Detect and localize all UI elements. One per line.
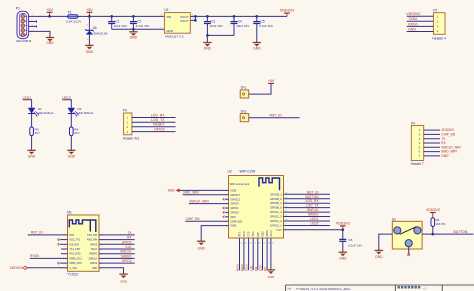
svg-text:C2: C2 xyxy=(137,19,141,23)
svg-text:BUTTON: BUTTON xyxy=(454,230,468,234)
svg-text:No:: No: xyxy=(288,287,292,291)
wire 3.3V rail xyxy=(195,15,287,17)
svg-text:SWCLK_WIFI: SWCLK_WIFI xyxy=(189,199,209,203)
svg-text:10uF 16V: 10uF 16V xyxy=(236,24,249,28)
svg-text:SWCLK: SWCLK xyxy=(89,257,98,260)
svg-text:CTS: CTS xyxy=(248,231,251,236)
svg-text:Header 4x1: Header 4x1 xyxy=(123,137,140,141)
ground GND (R3) xyxy=(27,150,35,158)
wire P2 pin 2 + node TXD0 xyxy=(407,17,434,21)
svg-text:S1: S1 xyxy=(392,217,396,221)
svg-text:LED-R25mA: LED-R25mA xyxy=(38,111,54,115)
svg-text:RXD: RXD xyxy=(243,231,246,236)
svg-text:GND: GND xyxy=(268,275,276,279)
svg-text:WIFI-COM: WIFI-COM xyxy=(240,169,256,173)
wire U2 pin5 stub (nc) xyxy=(223,207,229,209)
svg-text:10uF 16V: 10uF 16V xyxy=(210,24,223,28)
wire P3 pin 1 + node LOG_RX xyxy=(132,113,176,117)
wire M1 pin3 stub (nc) xyxy=(58,243,68,245)
svg-text:MISO: MISO xyxy=(240,264,244,271)
led D2 LED-R 25mA xyxy=(68,107,93,127)
wire M1 right pin + node TX xyxy=(99,231,135,235)
svg-text:IO9: IO9 xyxy=(254,266,258,271)
wire P2 pin 1 + node VDD3V3 xyxy=(406,12,433,16)
svg-text:C4: C4 xyxy=(238,19,242,23)
wire U2 bottom pin + node SCLK xyxy=(245,238,253,271)
svg-text:Header 4: Header 4 xyxy=(432,37,446,41)
wire P4 pin 1 + node VDD3V3 xyxy=(424,128,454,132)
capacitor C1 10uF 16V xyxy=(108,15,127,29)
svg-text:CLK: CLK xyxy=(125,245,132,249)
wire U2 pin4 + node SWCLK_WIFI xyxy=(189,199,229,203)
svg-text:+5V: +5V xyxy=(268,79,275,83)
wire M1 pin8 + power VDD3V3 port xyxy=(10,266,68,270)
svg-text:+5V: +5V xyxy=(46,8,53,12)
svg-text:TXD_PIN: TXD_PIN xyxy=(87,234,97,237)
svg-text:RX1_RXD: RX1_RXD xyxy=(69,253,80,256)
svg-text:C5: C5 xyxy=(261,19,265,23)
wire P3 pin 2 + node LOG_TX xyxy=(132,118,176,122)
resistor R1 10K xyxy=(431,213,446,235)
svg-text:GPIOC_1: GPIOC_1 xyxy=(270,223,282,227)
svg-text:SWCLK: SWCLK xyxy=(307,208,319,212)
svg-text:SWDIO: SWDIO xyxy=(89,253,97,256)
regulator U1 AMS1117-3.3 xyxy=(161,8,194,38)
svg-text:MOSI: MOSI xyxy=(266,230,269,237)
svg-text:GPIOB_0: GPIOB_0 xyxy=(270,206,282,210)
svg-text:GPIOB_1: GPIOB_1 xyxy=(270,201,282,205)
U2 bottom pin names xyxy=(239,230,273,237)
wire U2 pin7 stub (nc) xyxy=(223,216,229,218)
svg-text:GND: GND xyxy=(86,50,94,54)
svg-text:VIN: VIN xyxy=(166,15,171,19)
wire M1 right pin + node GPIO2 xyxy=(99,259,135,263)
svg-text:SWD_WIFI: SWD_WIFI xyxy=(183,191,199,195)
wire U2 right pin + node LED2 xyxy=(284,221,331,225)
wire U2 right pin + node BUTTON xyxy=(284,195,331,199)
wire USB GND to ground xyxy=(29,30,50,38)
connector P1 MiniUSB-B xyxy=(16,7,32,43)
node LED2 net label xyxy=(62,96,71,108)
power VDD3V3 (R1) xyxy=(426,208,440,212)
svg-text:LOG_TX: LOG_TX xyxy=(151,118,165,122)
svg-text:LED1: LED1 xyxy=(311,217,319,221)
wire U2 bottom pin + node EN xyxy=(263,238,271,271)
wire P4 pin 2 + node CHIP_EN xyxy=(424,133,456,137)
wire U2 pin8 + node CHIP_EN xyxy=(185,217,228,221)
wire P4 pin 3 + node TX xyxy=(424,137,447,141)
svg-text:RXD0: RXD0 xyxy=(30,254,39,258)
svg-text:PWM_IO13: PWM_IO13 xyxy=(69,257,82,260)
svg-text:GND: GND xyxy=(120,280,128,284)
svg-text:4K7: 4K7 xyxy=(74,131,80,135)
svg-text:RXD_PIN: RXD_PIN xyxy=(87,239,98,242)
svg-text:4K7: 4K7 xyxy=(35,131,41,135)
svg-text:SWCLK: SWCLK xyxy=(120,250,132,254)
ground GND (C3/C4) xyxy=(203,35,211,50)
wire M1 right pin + node SWDIO xyxy=(99,254,135,258)
svg-text:D6: D6 xyxy=(93,26,97,30)
svg-text:F1: F1 xyxy=(68,10,72,14)
wire D6 node to U1 VIN xyxy=(89,15,164,17)
wire U2 right pin + node LED1 xyxy=(284,217,331,221)
svg-text:RST_IO: RST_IO xyxy=(31,231,44,235)
svg-text:GND: GND xyxy=(253,47,261,51)
svg-text:SCLK: SCLK xyxy=(91,248,98,251)
resistor R4 4K7 xyxy=(70,127,80,150)
wire U2 right pin + node SWDIO xyxy=(284,213,331,217)
power +5V (fuse output) xyxy=(86,8,93,18)
svg-text:U2: U2 xyxy=(228,169,232,173)
svg-text:GPIO2: GPIO2 xyxy=(122,259,132,263)
svg-text:P1: P1 xyxy=(16,7,20,11)
connector P3 Header 4x1 xyxy=(123,109,140,141)
wire C1/C2/U1 ground bus xyxy=(112,27,165,30)
svg-text:RST_IO: RST_IO xyxy=(307,190,319,194)
module M1 TYZS3 xyxy=(67,210,99,271)
svg-text:GPIOC_4: GPIOC_4 xyxy=(270,210,282,214)
svg-text:CHIP_EN: CHIP_EN xyxy=(186,217,201,221)
power VDD3V3 (rail end) xyxy=(280,9,294,17)
svg-text:IO9: IO9 xyxy=(257,232,260,237)
svg-text:+5V: +5V xyxy=(86,8,93,12)
wire U1 VOUT join xyxy=(190,15,196,22)
wire TP2 + node RST_IO xyxy=(249,114,300,118)
wire M1 pin4 stub xyxy=(61,248,68,250)
power +5V (TP1) xyxy=(268,79,275,83)
svg-text:LOG_RX: LOG_RX xyxy=(306,199,320,203)
svg-text:P3: P3 xyxy=(123,109,127,113)
svg-text:GPIO0: GPIO0 xyxy=(122,240,132,244)
svg-text:LED-R25mA: LED-R25mA xyxy=(78,111,94,115)
svg-text:SWDIO: SWDIO xyxy=(308,213,319,217)
wire U2 bottom pin + node IO9 xyxy=(254,238,262,271)
svg-text:GPIO0: GPIO0 xyxy=(230,211,239,215)
svg-text:LOG_TX: LOG_TX xyxy=(306,204,319,208)
resistor R3 4K7 xyxy=(30,127,40,150)
svg-text:M1: M1 xyxy=(67,210,72,214)
svg-text:P4: P4 xyxy=(411,121,415,125)
wire U2 right pin + node LOG_RX xyxy=(284,199,331,203)
svg-text:GPIOC_2: GPIOC_2 xyxy=(270,219,282,223)
svg-text:GPIOB_3: GPIOB_3 xyxy=(270,192,282,196)
wire USB D- stub xyxy=(29,20,37,23)
wire M1 right pin + node RX xyxy=(99,236,135,240)
svg-text:VDD3V3: VDD3V3 xyxy=(426,208,440,212)
wire U2 pin9 GND to ground xyxy=(201,226,228,242)
fuse F1 0.5A 13.2V xyxy=(66,10,82,23)
wire U2 bottom GND pin xyxy=(271,238,275,270)
svg-text:SCLK: SCLK xyxy=(270,230,273,237)
svg-text:VDD3V3: VDD3V3 xyxy=(406,12,420,16)
wire U2 pin2 + node SWD_WIFI xyxy=(183,191,229,195)
svg-text:GPIO4: GPIO4 xyxy=(230,202,239,206)
wire U2 right pin + node SWCLK xyxy=(284,208,331,212)
M1 pin names xyxy=(65,234,104,270)
svg-text:GND: GND xyxy=(230,189,236,193)
wire S1 right + node BUTTON xyxy=(422,230,473,236)
svg-text:IO10: IO10 xyxy=(259,265,263,271)
capacitor C5 0.1uF 16V xyxy=(253,15,273,42)
svg-text:RXD0: RXD0 xyxy=(408,22,417,26)
wire U2 pin6 stub (nc) xyxy=(223,211,229,213)
svg-text:LED2: LED2 xyxy=(311,221,319,225)
wire U2 3.3V pin to VDD3V3 xyxy=(284,226,345,231)
svg-text:IO0_RX1: IO0_RX1 xyxy=(69,243,80,246)
switch S1 xyxy=(392,217,422,249)
diode D6 SMAJ5.0A TVS xyxy=(85,16,107,45)
wire P2 pin 3 + node RXD0 xyxy=(407,22,434,26)
wire M1 pin6 + node RXD0 xyxy=(30,254,68,258)
svg-text:C3: C3 xyxy=(211,19,215,23)
ground GND (U2 left) xyxy=(197,241,205,250)
wire C3/C4 ground bus xyxy=(206,34,234,37)
svg-text:GND: GND xyxy=(92,267,98,270)
wire P3 pin 4 + node GPIO0 xyxy=(132,127,176,131)
svg-text:PWM_IO15: PWM_IO15 xyxy=(69,262,82,265)
led D1 LED-R 25mA xyxy=(28,107,53,127)
wire U2 bottom pin + node MISO xyxy=(240,238,248,271)
svg-text:GND: GND xyxy=(204,47,212,51)
wire S1 nc pin + no-connect xyxy=(407,247,410,256)
svg-text:GND: GND xyxy=(408,27,416,31)
wire fuse to D6 node xyxy=(78,15,89,17)
svg-text:0.5A 13.2V: 0.5A 13.2V xyxy=(66,20,82,24)
svg-text:GND: GND xyxy=(68,155,76,159)
wire TP1 to +5V xyxy=(249,83,271,94)
wire U2 right pin + node LOG_TX xyxy=(284,204,331,208)
module U2 WIFI-COM xyxy=(228,169,284,238)
svg-text:C6: C6 xyxy=(348,238,352,242)
svg-text:GND: GND xyxy=(46,41,54,45)
svg-text:SCLK: SCLK xyxy=(245,264,249,271)
svg-text:10uF 16V: 10uF 16V xyxy=(114,24,127,28)
svg-text:GND: GND xyxy=(441,154,449,158)
wire M1 right pin + node GPIO0 xyxy=(99,240,135,244)
svg-text:RTS: RTS xyxy=(239,231,242,236)
svg-text:GPIO17: GPIO17 xyxy=(230,193,240,197)
connector P4 Header 7 xyxy=(411,121,424,166)
ground GND (R4) xyxy=(67,150,75,158)
ground GND (C2) xyxy=(129,29,137,39)
svg-text:0.1uF 16V: 0.1uF 16V xyxy=(259,24,273,28)
svg-text:VDD3V3: VDD3V3 xyxy=(336,222,350,226)
ground GND (D6) xyxy=(85,45,93,53)
svg-text:GPIO2: GPIO2 xyxy=(90,243,98,246)
wire P4 pin 4 + node RX xyxy=(424,141,447,145)
wire M1 pin7 stub (nc) xyxy=(58,262,68,264)
svg-text:MOSI: MOSI xyxy=(236,264,240,271)
wire P3 pin 3 + node RESET xyxy=(132,123,176,127)
svg-text:SMAJ5.0A: SMAJ5.0A xyxy=(93,31,107,35)
ground GND (S1) xyxy=(375,250,383,258)
svg-text:TX1_TXD: TX1_TXD xyxy=(69,248,80,251)
svg-text:CHIP_EN: CHIP_EN xyxy=(230,219,242,223)
U2 left pin names xyxy=(226,189,242,228)
svg-text:3.3V: 3.3V xyxy=(276,228,282,232)
wire USB VBUS stub xyxy=(29,15,50,17)
antenna (M1 meander) xyxy=(69,220,96,232)
wire U2 bottom pin + node CS0 xyxy=(249,238,257,271)
svg-text:C1: C1 xyxy=(115,19,119,23)
svg-text:LOG_RX: LOG_RX xyxy=(151,113,165,117)
antenna (U2 meander) xyxy=(259,178,280,190)
svg-text:RST: RST xyxy=(69,234,74,237)
ground GND (C5) xyxy=(253,43,261,51)
svg-text:A_VCC: A_VCC xyxy=(69,267,77,270)
svg-text:IO10: IO10 xyxy=(262,231,265,237)
capacitor C6 0.1uF 16V xyxy=(339,230,362,253)
svg-text:GND: GND xyxy=(28,155,36,159)
svg-text:GND: GND xyxy=(339,257,347,261)
wire M1 pin5 stub xyxy=(61,253,68,255)
svg-text:VDD3V3: VDD3V3 xyxy=(10,266,23,270)
svg-text:RST_IO: RST_IO xyxy=(270,114,283,118)
wire P2 pin 4 + node GND xyxy=(407,27,434,31)
svg-text:EN: EN xyxy=(263,267,267,271)
capacitor C3 10uF 16V xyxy=(204,15,223,35)
wire M1 right pin + node SWCLK xyxy=(99,250,135,254)
svg-text:TXD: TXD xyxy=(252,231,255,236)
svg-text:Header 7: Header 7 xyxy=(411,162,424,166)
wire P4 pin 6 + node SWD_WIFI xyxy=(424,150,458,154)
svg-text:P2: P2 xyxy=(433,9,437,13)
wire U2 bottom pin + node MOSI xyxy=(236,238,244,271)
svg-text:GPIOC_3: GPIOC_3 xyxy=(270,215,282,219)
wire +5V input rail xyxy=(50,15,68,17)
svg-text:GND: GND xyxy=(168,189,176,193)
capacitor C2 4.7uF 16V xyxy=(130,15,150,29)
svg-text:GND: GND xyxy=(375,255,383,259)
wire M1 pin2 stub (nc) xyxy=(58,238,68,240)
ground GND (C6) xyxy=(339,252,347,260)
svg-text:AMS1117-3.3: AMS1117-3.3 xyxy=(165,34,184,38)
test point TP2 xyxy=(240,110,249,122)
node LED1 net label xyxy=(23,96,32,108)
wire S1 left to ground xyxy=(379,234,393,250)
svg-text:GPIO4: GPIO4 xyxy=(90,262,98,265)
svg-text:RESET: RESET xyxy=(153,123,164,127)
wire U2 pin1 GND + port xyxy=(168,188,229,192)
svg-text:U1: U1 xyxy=(164,8,168,12)
svg-text:VOUT: VOUT xyxy=(180,19,189,23)
svg-text:v1.0: v1.0 xyxy=(423,287,428,290)
svg-text:TYZS3: TYZS3 xyxy=(67,272,77,276)
ground GND (USB) xyxy=(46,38,54,46)
svg-text:ADC: ADC xyxy=(230,215,236,219)
svg-text:SWDIO: SWDIO xyxy=(121,254,132,258)
test point TP1 xyxy=(240,86,249,98)
svg-text:WiFi component: WiFi component xyxy=(230,182,250,186)
svg-text:TYWE3S_V1.0 32AN1580DCw_M0w: TYWE3S_V1.0 32AN1580DCw_M0w xyxy=(296,287,351,291)
svg-text:GPIOB_2: GPIOB_2 xyxy=(270,197,282,201)
svg-text:10K 5%: 10K 5% xyxy=(436,222,446,226)
title block xyxy=(286,285,474,291)
U2 right pin names xyxy=(270,192,282,232)
svg-text:ADC_TX1: ADC_TX1 xyxy=(69,239,80,242)
svg-text:GPIO1: GPIO1 xyxy=(230,206,239,210)
wire M1 pin1 + node RST_IO xyxy=(28,231,68,235)
svg-text:GND: GND xyxy=(166,29,174,33)
connector P2 Header 4 xyxy=(432,9,446,41)
svg-text:TXD0: TXD0 xyxy=(408,17,417,21)
svg-text:4.7uF 16V: 4.7uF 16V xyxy=(136,24,150,28)
capacitor C4 10uF 16V xyxy=(231,15,250,35)
wire U2 pin3 stub (nc) xyxy=(223,198,229,200)
wire U2 bottom pin + node IO10 xyxy=(259,238,267,271)
power VDD3V3 (U2) xyxy=(336,222,350,226)
svg-text:TP1: TP1 xyxy=(240,86,246,90)
ground GND (U2 bottom) xyxy=(267,270,275,279)
svg-text:GND: GND xyxy=(198,246,206,250)
svg-text:GPIO12: GPIO12 xyxy=(230,197,240,201)
wire P4 pin 5 + node SWCLK_WIFI xyxy=(424,145,462,149)
svg-text:GND: GND xyxy=(230,224,236,228)
svg-text:BUTTON: BUTTON xyxy=(305,195,319,199)
svg-text:GPIO0: GPIO0 xyxy=(154,127,164,131)
wire P4 pin 7 + node GND xyxy=(424,154,449,158)
wire U2 right pin + node RST_IO xyxy=(284,190,331,194)
wire M1 right pin + node CLK xyxy=(99,245,135,249)
svg-text:VDD3V3: VDD3V3 xyxy=(280,9,294,13)
svg-text:CS0: CS0 xyxy=(249,265,253,271)
wire M1 GND pin to ground xyxy=(99,268,124,274)
power +5V (USB side) xyxy=(46,8,53,18)
svg-text:0.1uF 16V: 0.1uF 16V xyxy=(348,244,362,248)
svg-text:MiniUSB-B: MiniUSB-B xyxy=(16,39,31,43)
wire USB D+ stub xyxy=(29,25,37,28)
ground GND (M1) xyxy=(119,274,127,284)
svg-text:GND: GND xyxy=(130,36,138,40)
